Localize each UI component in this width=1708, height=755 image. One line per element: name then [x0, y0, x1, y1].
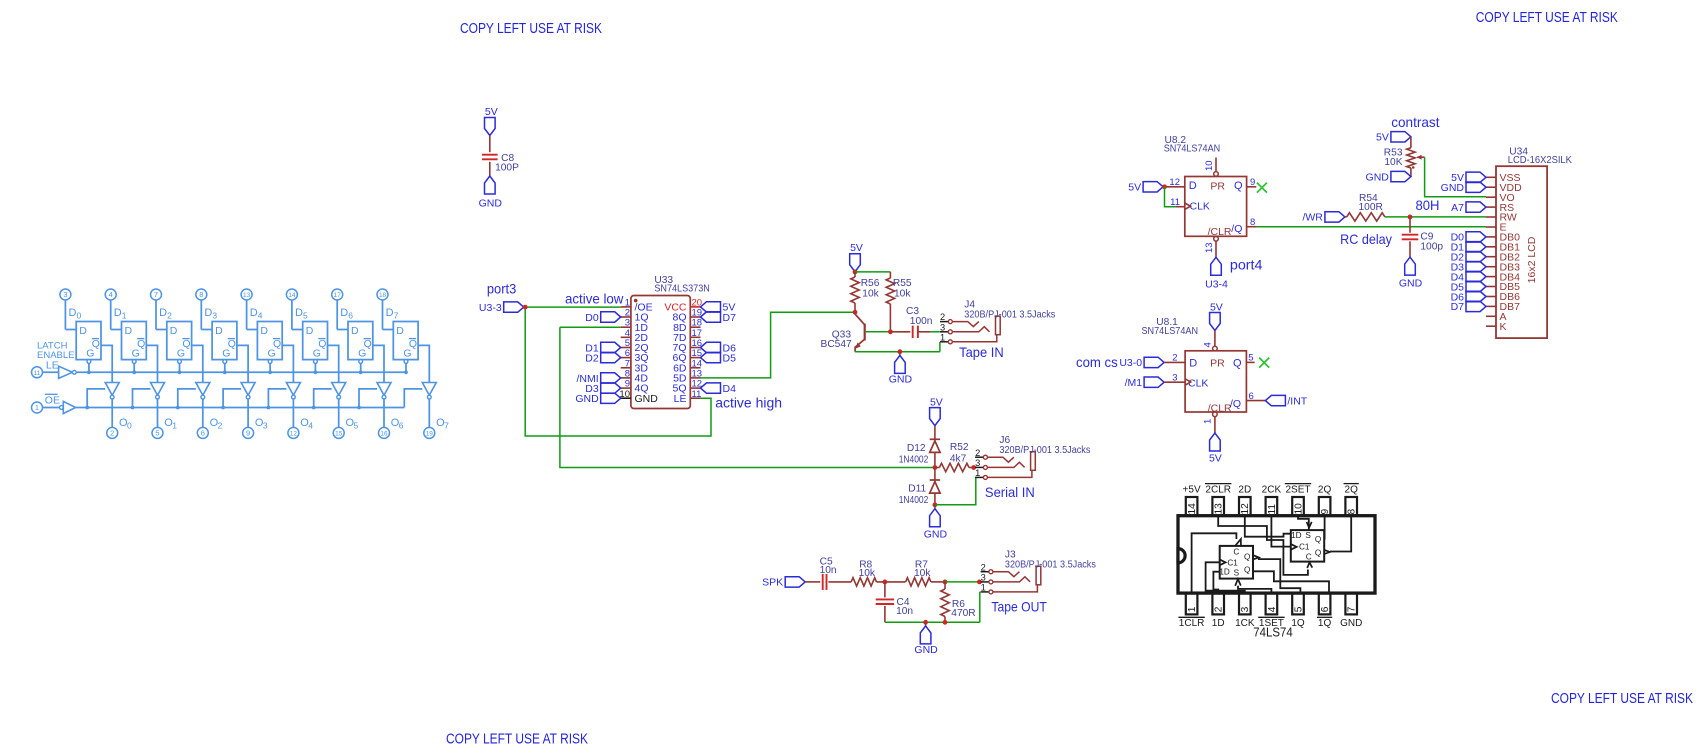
svg-text:15: 15 [335, 431, 343, 438]
svg-text:LE: LE [674, 393, 687, 405]
svg-text:100p: 100p [1420, 242, 1443, 253]
svg-text:GND: GND [1441, 182, 1465, 194]
svg-text:6: 6 [399, 421, 404, 431]
svg-text:2D: 2D [1238, 484, 1251, 495]
svg-text:14: 14 [1187, 503, 1198, 515]
svg-text:5V: 5V [1376, 132, 1389, 144]
svg-text:1: 1 [940, 332, 945, 342]
svg-text:14: 14 [288, 292, 296, 299]
svg-text:D2: D2 [585, 352, 599, 364]
svg-text:10n: 10n [896, 606, 913, 617]
svg-text:D: D [295, 307, 303, 319]
svg-text:2: 2 [218, 421, 223, 431]
svg-text:5V: 5V [850, 242, 863, 254]
svg-text:R52: R52 [950, 442, 969, 453]
svg-text:12: 12 [1169, 177, 1180, 188]
svg-text:D5: D5 [723, 352, 737, 364]
svg-text:U3-0: U3-0 [1119, 357, 1142, 369]
svg-text:2: 2 [975, 448, 980, 458]
svg-text:GND: GND [924, 529, 948, 541]
svg-text:5: 5 [303, 311, 308, 321]
svg-text:SN74LS373N: SN74LS373N [654, 284, 709, 295]
svg-text:470R: 470R [951, 608, 975, 619]
svg-text:13: 13 [1214, 503, 1225, 515]
svg-text:320B/PJ-001 3.5Jacks: 320B/PJ-001 3.5Jacks [964, 309, 1055, 320]
svg-text:8: 8 [1347, 509, 1358, 515]
svg-text:active high: active high [715, 395, 782, 411]
svg-text:U3-4: U3-4 [1205, 278, 1228, 290]
svg-text:G: G [358, 348, 366, 360]
svg-text:0: 0 [127, 421, 132, 431]
svg-text:SN74LS74AN: SN74LS74AN [1142, 326, 1199, 337]
svg-text:D12: D12 [907, 443, 926, 454]
svg-text:OE: OE [45, 395, 60, 407]
svg-text:D7: D7 [1451, 301, 1465, 313]
svg-text:5V: 5V [1210, 301, 1223, 313]
svg-text:GND: GND [479, 198, 503, 210]
svg-text:D: D [250, 307, 258, 319]
svg-text:LE: LE [46, 360, 59, 372]
svg-text:1: 1 [1203, 419, 1214, 424]
svg-text:80H: 80H [1416, 197, 1440, 213]
svg-text:D: D [69, 307, 77, 319]
svg-text:3: 3 [981, 573, 986, 583]
svg-text:port3: port3 [487, 281, 517, 297]
svg-text:GND: GND [889, 374, 913, 386]
svg-text:Tape OUT: Tape OUT [991, 598, 1047, 614]
svg-text:GND: GND [1399, 278, 1423, 290]
svg-text:G: G [86, 348, 94, 360]
svg-text:S: S [1305, 531, 1311, 540]
svg-text:6: 6 [1320, 606, 1331, 612]
svg-text:74LS74: 74LS74 [1253, 626, 1292, 640]
svg-text:Tape IN: Tape IN [959, 344, 1004, 360]
svg-text:11: 11 [1170, 197, 1180, 208]
svg-text:D: D [386, 307, 394, 319]
svg-text:2CK: 2CK [1262, 484, 1282, 495]
svg-text:PR: PR [1210, 180, 1225, 192]
svg-text:1D: 1D [1291, 531, 1302, 540]
svg-text:D: D [215, 325, 223, 337]
svg-text:D: D [396, 325, 404, 337]
svg-text:5: 5 [155, 429, 159, 438]
svg-text:com cs: com cs [1076, 354, 1118, 370]
svg-text:5: 5 [354, 421, 359, 431]
svg-text:BC547: BC547 [821, 339, 852, 350]
svg-text:G: G [313, 348, 321, 360]
svg-text:D: D [306, 325, 314, 337]
svg-text:1: 1 [981, 583, 986, 593]
svg-text:3: 3 [212, 311, 217, 321]
svg-text:4: 4 [308, 421, 313, 431]
svg-text:/WR: /WR [1302, 212, 1323, 224]
svg-text:GND: GND [1366, 171, 1390, 183]
svg-text:0: 0 [77, 311, 82, 321]
svg-text:2: 2 [1172, 353, 1177, 364]
svg-text:2: 2 [981, 562, 986, 572]
svg-text:SN74LS74AN: SN74LS74AN [1164, 144, 1221, 155]
svg-text:6: 6 [348, 311, 353, 321]
svg-text:Q: Q [1234, 180, 1243, 192]
svg-text:2: 2 [167, 311, 172, 321]
svg-text:Q: Q [1244, 552, 1250, 561]
svg-text:CLK: CLK [1190, 201, 1210, 213]
svg-text:D: D [260, 325, 268, 337]
svg-text:9: 9 [246, 429, 250, 438]
svg-text:1CK: 1CK [1235, 618, 1255, 629]
svg-text:U3-3: U3-3 [479, 302, 502, 314]
svg-text:1: 1 [172, 421, 177, 431]
svg-text:D: D [204, 307, 212, 319]
svg-text:D11: D11 [908, 484, 926, 495]
svg-text:4: 4 [1203, 342, 1214, 347]
svg-text:2SET: 2SET [1285, 484, 1310, 495]
svg-text:5V: 5V [1128, 182, 1141, 194]
svg-text:G: G [177, 348, 185, 360]
svg-text:4: 4 [1267, 606, 1278, 612]
svg-text:17: 17 [334, 292, 342, 299]
svg-text:9: 9 [1250, 177, 1255, 188]
svg-text:7: 7 [1347, 606, 1358, 612]
svg-text:D: D [1189, 180, 1197, 192]
svg-text:C: C [1306, 553, 1312, 562]
svg-text:11: 11 [1267, 504, 1278, 515]
svg-text:COPY LEFT USE AT RISK: COPY LEFT USE AT RISK [446, 731, 588, 748]
svg-text:A7: A7 [1451, 202, 1464, 214]
svg-text:4: 4 [258, 311, 263, 321]
svg-text:1: 1 [1187, 606, 1198, 612]
svg-text:320B/PJ-001 3.5Jacks: 320B/PJ-001 3.5Jacks [999, 445, 1090, 456]
svg-text:12: 12 [1240, 503, 1251, 515]
svg-text:/Q: /Q [1230, 398, 1241, 410]
svg-text:2CLR: 2CLR [1205, 484, 1231, 495]
svg-text:1CLR: 1CLR [1179, 618, 1205, 629]
svg-text:D7: D7 [723, 312, 737, 324]
svg-text:11: 11 [34, 370, 41, 377]
svg-text:3: 3 [263, 421, 268, 431]
svg-text:C1: C1 [1227, 558, 1238, 567]
svg-text:contrast: contrast [1391, 114, 1439, 130]
svg-text:13: 13 [243, 292, 251, 299]
svg-text:1Q: 1Q [1318, 618, 1332, 629]
svg-text:320B/PJ-001 3.5Jacks: 320B/PJ-001 3.5Jacks [1005, 559, 1096, 570]
svg-text:RC delay: RC delay [1340, 231, 1392, 247]
svg-text:+5V: +5V [1183, 484, 1201, 495]
svg-text:16: 16 [380, 431, 388, 438]
svg-text:2: 2 [940, 312, 945, 322]
svg-text:8: 8 [1250, 217, 1255, 228]
svg-text:COPY LEFT USE AT RISK: COPY LEFT USE AT RISK [460, 20, 602, 37]
svg-text:2Q: 2Q [1345, 484, 1359, 495]
svg-text:100n: 100n [910, 316, 933, 327]
svg-text:G: G [403, 348, 411, 360]
svg-text:1: 1 [975, 468, 980, 478]
svg-text:18: 18 [379, 292, 387, 299]
svg-text:D: D [159, 307, 167, 319]
svg-text:LCD-16X2SILK: LCD-16X2SILK [1508, 155, 1572, 166]
svg-text:1N4002: 1N4002 [899, 455, 929, 466]
svg-text:D: D [114, 307, 122, 319]
svg-text:3: 3 [63, 290, 67, 299]
svg-text:4k7: 4k7 [950, 453, 967, 464]
svg-text:8: 8 [199, 290, 203, 299]
svg-text:GND: GND [635, 393, 659, 405]
svg-text:10k: 10k [894, 288, 911, 299]
svg-text:10k: 10k [859, 568, 876, 579]
svg-text:PR: PR [1210, 357, 1225, 369]
svg-text:13: 13 [1204, 242, 1215, 253]
svg-text:D4: D4 [723, 383, 737, 395]
svg-text:1: 1 [122, 311, 127, 321]
svg-text:7: 7 [154, 290, 158, 299]
svg-text:5V: 5V [930, 396, 943, 408]
svg-text:active low: active low [565, 290, 624, 306]
svg-text:K: K [1500, 321, 1507, 333]
svg-text:5V: 5V [1209, 453, 1222, 465]
svg-text:D: D [340, 307, 348, 319]
svg-text:1D: 1D [1212, 618, 1225, 629]
svg-text:2Q: 2Q [1318, 484, 1332, 495]
svg-text:1Q: 1Q [1291, 618, 1305, 629]
svg-text:16x2 LCD: 16x2 LCD [1526, 236, 1538, 283]
svg-text:GND: GND [914, 644, 938, 656]
svg-text:1: 1 [35, 403, 39, 412]
svg-text:C1: C1 [1299, 543, 1310, 552]
svg-text:10n: 10n [820, 565, 837, 576]
svg-text:5: 5 [1293, 606, 1304, 612]
svg-text:10k: 10k [914, 568, 931, 579]
svg-text:/CLR: /CLR [1208, 226, 1232, 238]
svg-text:C: C [1233, 547, 1239, 556]
svg-text:GND: GND [1340, 618, 1362, 629]
svg-text:11: 11 [692, 389, 702, 400]
svg-text:Q: Q [1233, 357, 1242, 369]
svg-text:10: 10 [1293, 503, 1304, 515]
svg-text:Q: Q [1244, 565, 1250, 574]
svg-text:G: G [132, 348, 140, 360]
svg-text:G: G [222, 348, 230, 360]
svg-text:CLK: CLK [1188, 377, 1208, 389]
svg-text:7: 7 [394, 311, 399, 321]
svg-text:19: 19 [426, 431, 434, 438]
svg-text:Q: Q [1315, 535, 1321, 544]
svg-text:10: 10 [1204, 160, 1215, 171]
svg-text:12: 12 [290, 431, 298, 438]
svg-text:1N4002: 1N4002 [899, 495, 929, 506]
svg-text:6: 6 [201, 429, 205, 438]
svg-text:Q: Q [1315, 548, 1321, 557]
svg-text:SPK: SPK [762, 577, 783, 589]
svg-text:6: 6 [1249, 391, 1254, 402]
svg-text:3: 3 [975, 458, 980, 468]
svg-text:100P: 100P [495, 162, 519, 173]
svg-text:3: 3 [1240, 606, 1251, 612]
svg-text:10k: 10k [862, 288, 879, 299]
svg-text:4: 4 [109, 290, 113, 299]
svg-text:9: 9 [1320, 509, 1331, 515]
svg-text:/CLR: /CLR [1208, 402, 1232, 414]
svg-text:D: D [1189, 358, 1197, 370]
svg-text:10K: 10K [1384, 157, 1402, 168]
svg-text:3: 3 [940, 322, 945, 332]
svg-text:D0: D0 [585, 312, 599, 324]
svg-text:/Q: /Q [1231, 223, 1242, 235]
svg-text:D: D [170, 325, 178, 337]
svg-text:/INT: /INT [1287, 395, 1307, 407]
svg-text:D: D [79, 325, 87, 337]
svg-text:2: 2 [1214, 606, 1225, 612]
svg-text:5: 5 [1248, 353, 1253, 364]
svg-text:GND: GND [575, 393, 599, 405]
svg-text:100R: 100R [1359, 202, 1383, 213]
svg-text:7: 7 [444, 421, 449, 431]
svg-text:2: 2 [110, 429, 114, 438]
svg-text:COPY LEFT USE AT RISK: COPY LEFT USE AT RISK [1551, 690, 1693, 707]
svg-text:port4: port4 [1230, 257, 1263, 273]
svg-text:G: G [268, 348, 276, 360]
svg-text:S: S [1234, 569, 1240, 578]
svg-text:D: D [351, 325, 359, 337]
svg-text:COPY LEFT USE AT RISK: COPY LEFT USE AT RISK [1476, 9, 1618, 26]
svg-text:5V: 5V [485, 106, 498, 118]
svg-text:Serial IN: Serial IN [985, 484, 1035, 500]
svg-text:D: D [125, 325, 133, 337]
svg-text:/M1: /M1 [1125, 377, 1143, 389]
svg-text:1D: 1D [1219, 568, 1230, 577]
svg-text:3: 3 [1172, 372, 1177, 383]
